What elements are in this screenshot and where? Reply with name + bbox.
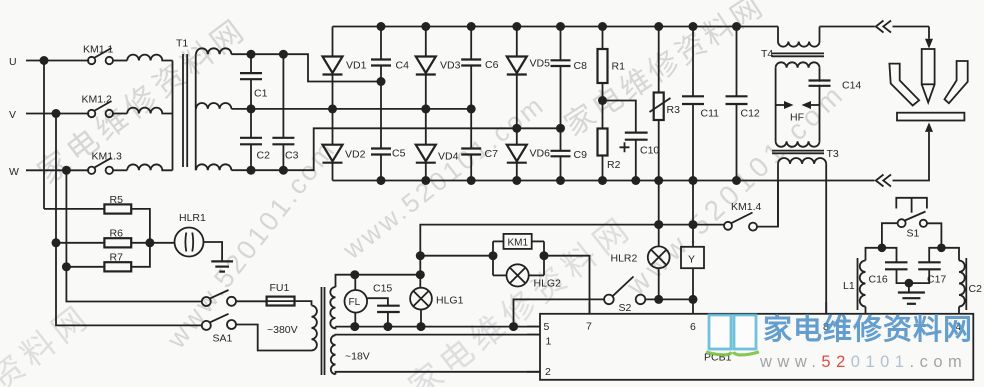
svg-text:VD2: VD2 xyxy=(345,149,366,161)
torch electrode xyxy=(922,49,935,102)
svg-text:6: 6 xyxy=(690,321,696,333)
svg-text:C17: C17 xyxy=(927,274,946,286)
svg-text:R1: R1 xyxy=(612,61,626,73)
svg-text:C2: C2 xyxy=(969,283,983,295)
capacitor C11 xyxy=(682,27,719,181)
wire top rail to torch xyxy=(820,27,930,39)
workpiece plate xyxy=(897,113,964,121)
capacitor C5 xyxy=(371,82,406,181)
capacitor C8 xyxy=(551,27,588,129)
resistor R2 xyxy=(598,129,621,181)
pin 1 xyxy=(527,335,552,348)
svg-text:R7: R7 xyxy=(110,252,124,264)
svg-text:C9: C9 xyxy=(574,149,588,161)
wire W column xyxy=(62,170,202,301)
svg-text:FU1: FU1 xyxy=(270,282,290,294)
capacitor C7 xyxy=(461,109,498,181)
capacitor C4 xyxy=(371,27,409,82)
capacitor C14 xyxy=(809,80,862,92)
wire V column xyxy=(52,114,203,326)
wire HF right leg xyxy=(819,68,821,142)
resistor R7 xyxy=(66,243,149,272)
T1 primary winding phase V xyxy=(127,108,172,114)
svg-text:V: V xyxy=(9,109,16,121)
svg-text:5: 5 xyxy=(544,321,550,333)
inductor L2 core xyxy=(965,258,967,310)
svg-text:C3: C3 xyxy=(285,150,299,162)
svg-text:C11: C11 xyxy=(701,107,720,119)
gas discharge lamp HLR1 xyxy=(175,212,207,257)
wire HLR1 to ground xyxy=(204,242,223,261)
svg-text:VD3: VD3 xyxy=(440,59,461,71)
svg-text:1: 1 xyxy=(546,336,552,348)
svg-text:KM1.4: KM1.4 xyxy=(731,201,762,213)
resistor R5 xyxy=(44,194,150,243)
svg-text:C4: C4 xyxy=(396,59,410,71)
capacitor C2 xyxy=(240,109,270,170)
svg-text:HLG2: HLG2 xyxy=(534,278,562,290)
svg-text:HLR1: HLR1 xyxy=(179,212,206,224)
site logo book icon xyxy=(706,315,759,355)
svg-text:T3: T3 xyxy=(827,148,839,160)
diode VD4 xyxy=(416,109,459,181)
svg-text:HLG1: HLG1 xyxy=(436,295,464,307)
svg-text:S2: S2 xyxy=(619,302,632,314)
svg-text:C14: C14 xyxy=(842,80,861,92)
pin 8 xyxy=(823,302,829,333)
contact KM1.2 xyxy=(82,94,114,118)
transformer T4 primary winding xyxy=(761,27,820,61)
diode VD1 xyxy=(323,27,367,109)
relay Y xyxy=(681,247,704,268)
svg-text:R3: R3 xyxy=(667,104,681,116)
wire PCB pin5 bus xyxy=(336,322,541,331)
svg-text:C5: C5 xyxy=(392,148,406,160)
wire KM1.1 to T1 xyxy=(113,60,127,62)
inductor L2 xyxy=(959,261,982,307)
wire S1 left branch xyxy=(882,223,898,248)
connector chevrons top xyxy=(876,21,891,33)
svg-text:C8: C8 xyxy=(574,60,588,72)
transformer T3 core xyxy=(772,148,839,160)
wire T1 primary star bus xyxy=(172,61,174,171)
capacitor C6 xyxy=(461,27,498,109)
wire HLR2 to S2 bus xyxy=(658,268,660,299)
pin 5 xyxy=(527,321,550,333)
control transformer core xyxy=(322,287,325,375)
wire T3 secondary right to PCB pin 8 xyxy=(825,164,827,314)
capacitor C10 electrolytic xyxy=(603,101,660,181)
contact KM1.3 xyxy=(88,151,122,175)
transformer T4 core xyxy=(772,53,824,56)
switch SA1 pole 1 xyxy=(202,290,236,306)
wire U column xyxy=(43,61,45,209)
transformer T3 primary winding xyxy=(776,141,820,146)
T1 primary winding phase U xyxy=(127,55,172,61)
wire C11 column to Y xyxy=(692,181,694,247)
svg-text:C12: C12 xyxy=(741,107,760,119)
svg-text:7: 7 xyxy=(586,321,592,333)
wire KM1.3 to T1 xyxy=(113,169,127,171)
svg-text:C16: C16 xyxy=(869,274,888,286)
PCB1 control board xyxy=(540,314,973,380)
svg-text:U: U xyxy=(9,56,17,68)
svg-text:T1: T1 xyxy=(176,38,188,50)
wire U input xyxy=(26,56,89,65)
wire Y to S2 bus xyxy=(692,268,694,299)
arrow to workpiece xyxy=(925,122,933,131)
capacitor C3 xyxy=(272,54,298,170)
wire KM1.4 to T3 xyxy=(757,181,778,227)
svg-text:C1: C1 xyxy=(254,88,268,100)
capacitor C1 xyxy=(240,54,268,109)
wire S2 bus xyxy=(514,295,698,327)
wire 18V to PCB pin 2 xyxy=(336,372,541,374)
capacitor C9 xyxy=(551,128,588,180)
svg-text:www.520101.com: www.520101.com xyxy=(759,353,967,371)
svg-text:C15: C15 xyxy=(373,283,392,295)
switch S2 xyxy=(604,277,645,315)
connector chevrons bottom xyxy=(876,175,891,187)
svg-text:~18V: ~18V xyxy=(345,351,370,363)
T1 secondary winding phase B xyxy=(196,103,231,109)
wire KM1.4 control bus xyxy=(416,220,724,288)
capacitor C16 xyxy=(869,262,909,285)
wire workpiece return xyxy=(893,132,930,181)
wire T3 secondary left to KM1.4 xyxy=(777,164,779,226)
wire FL bus xyxy=(336,270,421,287)
svg-text:KM1: KM1 xyxy=(508,238,529,249)
torch nozzle left xyxy=(889,64,919,106)
diode VD2 xyxy=(323,109,366,181)
T1 secondary winding phase C xyxy=(196,164,231,170)
svg-text:2: 2 xyxy=(545,366,551,378)
wire KM1 group left junction xyxy=(489,241,507,275)
svg-text:FL: FL xyxy=(349,297,361,308)
svg-text:S1: S1 xyxy=(907,228,920,240)
svg-text:C10: C10 xyxy=(640,145,659,157)
diode VD6 xyxy=(507,128,550,180)
ground at C16 C17 xyxy=(898,279,925,304)
svg-text:T4: T4 xyxy=(761,48,773,60)
wire L1 to PCB xyxy=(865,307,867,314)
spark gap HF xyxy=(776,101,820,124)
wire to HLR1 xyxy=(150,242,175,244)
control transformer secondary lower winding 18V xyxy=(331,335,370,374)
svg-text:KM1.1: KM1.1 xyxy=(83,44,114,56)
wire primary return to SA1 xyxy=(236,325,312,351)
inductor L1 xyxy=(843,261,866,307)
svg-text:C2: C2 xyxy=(257,150,271,162)
capacitor C15 xyxy=(367,283,400,327)
T1 secondary winding phase A xyxy=(196,48,231,54)
svg-text:VD4: VD4 xyxy=(438,151,459,163)
capacitor C17 xyxy=(909,262,947,285)
switch SA1 pole 2 xyxy=(202,314,236,345)
wire KM1 group right junction xyxy=(529,241,549,275)
lamp HLR2 xyxy=(611,246,670,268)
arrow into electrode xyxy=(925,39,933,49)
resistor R3 varistor xyxy=(650,27,681,181)
wire DC bottom rail xyxy=(333,176,875,185)
torch nozzle right xyxy=(945,61,968,103)
svg-text:Y: Y xyxy=(688,254,695,266)
transformer T1 core xyxy=(176,38,188,168)
svg-text:R5: R5 xyxy=(110,194,124,206)
svg-text:~380V: ~380V xyxy=(267,324,298,336)
fuse FU1 xyxy=(236,282,295,306)
wire L1 C16 node xyxy=(866,244,897,263)
pin 7 xyxy=(586,302,592,333)
wire KM1 group feed xyxy=(420,255,493,257)
wire C17 coil node xyxy=(929,244,959,263)
transformer T4 secondary winding xyxy=(776,62,820,67)
svg-text:VD1: VD1 xyxy=(346,59,367,71)
svg-text:HF: HF xyxy=(790,112,804,124)
wire R3 column to HLR2 xyxy=(658,181,660,247)
svg-text:VD6: VD6 xyxy=(530,148,551,160)
contact KM1.4 xyxy=(724,201,762,231)
svg-text:SA1: SA1 xyxy=(213,333,233,345)
svg-text:C6: C6 xyxy=(485,59,499,71)
inductor L1 core xyxy=(857,258,859,310)
resistor R1 xyxy=(598,27,626,129)
ground at HLR1 xyxy=(211,261,233,271)
svg-text:W: W xyxy=(9,166,19,178)
svg-text:KM1.3: KM1.3 xyxy=(92,151,123,163)
wire W input xyxy=(26,166,89,175)
svg-text:HLR2: HLR2 xyxy=(611,253,638,265)
transformer T3 secondary winding xyxy=(778,158,826,164)
wire HF left leg xyxy=(775,68,777,142)
pushbutton S1 actuator xyxy=(896,198,927,213)
wire L2 to PCB pin 4 xyxy=(958,307,960,314)
wire phase C xyxy=(231,124,565,175)
wire 18V to PCB pin 1 xyxy=(336,334,541,337)
svg-text:C7: C7 xyxy=(485,148,499,160)
svg-text:家电维修资料网: 家电维修资料网 xyxy=(763,312,973,346)
wire V input xyxy=(26,109,89,118)
control transformer secondary upper winding xyxy=(330,287,335,328)
switch S1 xyxy=(898,212,927,240)
wire to PCB pin 7 xyxy=(544,256,590,314)
gas lamp FL xyxy=(345,275,368,327)
lamp HLG2 xyxy=(506,264,561,289)
contactor coil KM1 xyxy=(504,234,532,249)
capacitor C12 xyxy=(726,27,760,181)
control transformer primary winding xyxy=(267,301,317,350)
wire S1 right branch xyxy=(927,223,941,248)
pin 2 xyxy=(527,366,551,378)
contact KM1.1 xyxy=(83,44,114,65)
svg-text:R6: R6 xyxy=(110,228,124,240)
svg-text:VD5: VD5 xyxy=(530,58,551,70)
wire S2 bus to PCB pin 6 xyxy=(692,299,694,313)
T1 primary winding phase W xyxy=(127,164,172,170)
wire HLG1 to pin5 bus xyxy=(420,310,422,327)
wire T1 secondary star bus xyxy=(195,54,197,170)
diode VD5 xyxy=(507,27,550,129)
wire phase B xyxy=(231,104,475,113)
diode VD3 xyxy=(416,27,461,109)
svg-text:KM1.2: KM1.2 xyxy=(82,94,113,106)
wire KM1.2 to T1 xyxy=(113,113,127,115)
resistor R6 xyxy=(56,228,154,248)
wire phase A xyxy=(231,50,385,86)
wire DC top rail xyxy=(333,22,779,31)
svg-text:L1: L1 xyxy=(843,280,855,292)
lamp HLG1 xyxy=(410,288,463,310)
svg-text:R2: R2 xyxy=(607,159,621,171)
